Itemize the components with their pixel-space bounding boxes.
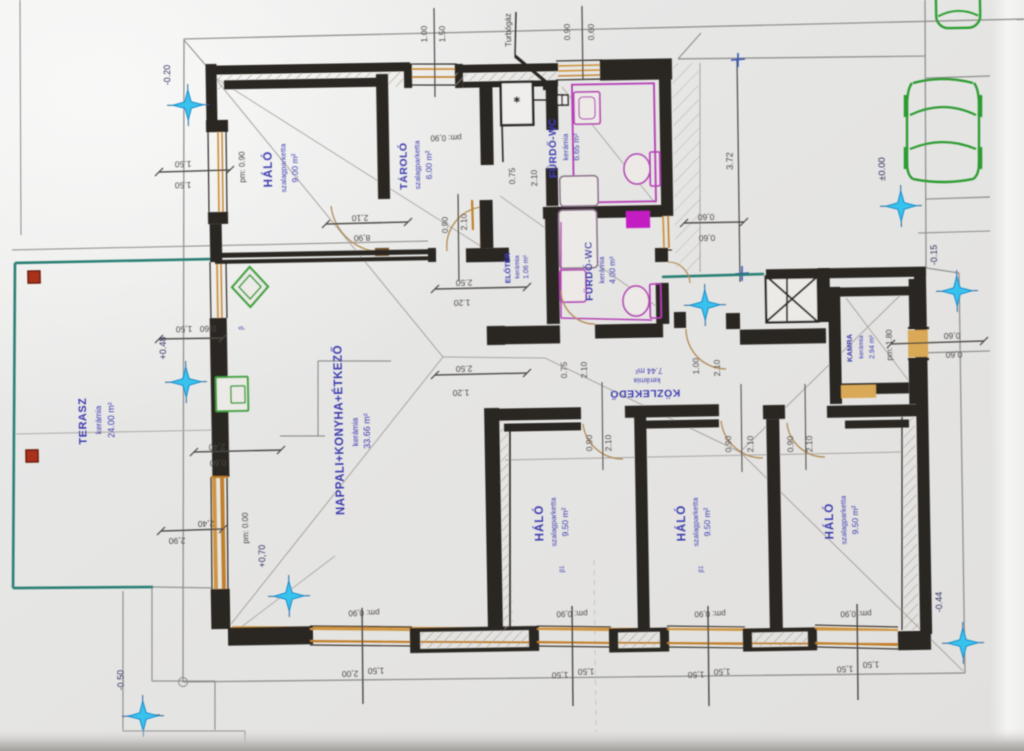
north wall inner face (HALO) bbox=[224, 78, 381, 90]
svg-text:2.10: 2.10 bbox=[745, 435, 755, 452]
pantry inner north face bbox=[834, 286, 912, 296]
ridge line west apex bbox=[443, 355, 545, 360]
west wall block below window W3a bbox=[208, 212, 228, 224]
svg-text:2,10: 2,10 bbox=[351, 213, 368, 223]
site boundary south line bbox=[183, 668, 965, 686]
hip diagonal NW corner to west apex bbox=[214, 73, 443, 361]
parking bay tick 4 bbox=[920, 351, 990, 353]
porch stair block bbox=[766, 276, 819, 323]
svg-text:szalagparketta: szalagparketta bbox=[839, 495, 849, 545]
pantry south inner face bbox=[836, 382, 909, 394]
hip diagonal east apex to NE corner bbox=[737, 270, 929, 452]
site boundary top line bbox=[184, 19, 1024, 39]
dim line tarolo door vertical bbox=[457, 194, 459, 281]
north wall over TAROLO outer bbox=[455, 63, 558, 73]
entry door swing arc bbox=[686, 328, 726, 369]
bed3 north wall (pantry south outer) bbox=[827, 404, 924, 418]
north wall over bathroom1 bbox=[600, 58, 672, 80]
SW site step line B bbox=[152, 680, 215, 682]
pantry door orange in south wall bbox=[841, 385, 876, 399]
svg-text:1,50: 1,50 bbox=[551, 670, 568, 680]
svg-text:β1: β1 bbox=[699, 565, 705, 573]
bed2 north wall inner face bbox=[636, 419, 719, 428]
svg-text:-0.15: -0.15 bbox=[929, 245, 939, 266]
svg-text:pm: 0,90: pm: 0,90 bbox=[430, 133, 462, 143]
survey circle at boundary bbox=[178, 677, 187, 686]
dim line 1.20/2.50 upper bbox=[435, 287, 527, 289]
survey star west bbox=[165, 381, 207, 384]
svg-text:2,90: 2,90 bbox=[168, 536, 185, 546]
dim line 1.50/0.60 terrace bbox=[159, 338, 223, 339]
bathroom2 west wall bbox=[545, 218, 560, 324]
window W5 orange lines bbox=[537, 628, 611, 632]
svg-text:9.00 m²: 9.00 m² bbox=[290, 153, 301, 182]
svg-text:FÜRDŐ-WC: FÜRDŐ-WC bbox=[581, 241, 595, 301]
svg-text:szalagparketta: szalagparketta bbox=[691, 497, 701, 547]
svg-text:1,50: 1,50 bbox=[687, 670, 704, 680]
dim line 2.40/0.60 terrace door bbox=[194, 450, 281, 452]
window W3a orange bbox=[218, 132, 220, 212]
svg-text:7.44 m²: 7.44 m² bbox=[635, 366, 663, 375]
SW corner block bbox=[211, 589, 231, 629]
green diamond symbol inner bbox=[239, 275, 261, 299]
corridor north wall west part bbox=[487, 325, 560, 344]
T wall lower part bbox=[480, 200, 494, 248]
svg-text:TÁROLÓ: TÁROLÓ bbox=[397, 142, 411, 190]
window W7 thin lines bbox=[815, 624, 898, 629]
window W1 north jamb left bbox=[404, 64, 412, 88]
svg-text:1,50: 1,50 bbox=[713, 667, 730, 677]
pantry exterior door orange bbox=[908, 330, 928, 357]
SW site step line D bbox=[121, 591, 126, 731]
south wall west segment bbox=[228, 626, 313, 645]
terrace teal outline top bbox=[15, 259, 213, 263]
bathroom window W9 orange bbox=[662, 216, 665, 248]
svg-text:szalagparketta: szalagparketta bbox=[549, 497, 559, 547]
south wall pier 2 bbox=[611, 630, 667, 651]
bathroom2 door swing arc bbox=[561, 289, 595, 324]
SW site step line C bbox=[214, 681, 216, 730]
corridor west wall piece (L) bbox=[487, 326, 505, 345]
bathroom window W9 lines bbox=[660, 213, 672, 215]
bed1 north wall bbox=[486, 407, 581, 421]
svg-text:kerámia: kerámia bbox=[94, 405, 104, 434]
dim line 2.90/2.40 terrace low bbox=[161, 529, 223, 531]
survey star NE bbox=[936, 290, 978, 293]
bathroom2 washbasin bbox=[560, 270, 587, 302]
bed3 door arc bbox=[787, 422, 825, 457]
star crosshair line bottom left bbox=[127, 714, 160, 717]
sloped ridge to east apex bbox=[545, 355, 740, 456]
bathroom2 east wall lower bbox=[656, 283, 670, 324]
scanner bottom shadow band bbox=[0, 728, 1024, 751]
pier3 end caps bbox=[745, 630, 752, 649]
dim vertical nappali window bottom bbox=[361, 608, 363, 704]
svg-text:24.00 m²: 24.00 m² bbox=[106, 402, 117, 438]
svg-text:2.10: 2.10 bbox=[804, 435, 814, 452]
svg-text:pm: 0,90: pm: 0,90 bbox=[556, 609, 588, 619]
window W4 orange lines bbox=[310, 627, 412, 632]
pantry west wall bbox=[828, 287, 842, 404]
svg-text:1.00: 1.00 bbox=[419, 25, 429, 42]
svg-text:0.75: 0.75 bbox=[559, 361, 569, 378]
svg-text:0,60: 0,60 bbox=[209, 458, 226, 468]
east wall hatch band bbox=[900, 417, 919, 630]
wall between rooms and nappali bbox=[215, 249, 436, 258]
terrace bottom gray continuation bbox=[153, 586, 213, 589]
entry wall foot below front door bbox=[674, 312, 686, 328]
svg-text:HÁLÓ: HÁLÓ bbox=[262, 151, 276, 188]
bathroom2 east wall upper bbox=[655, 248, 668, 262]
hip diagonal east apex to SE boundary corner bbox=[740, 448, 963, 675]
svg-text:-0.20: -0.20 bbox=[162, 65, 172, 86]
svg-text:HÁLÓ: HÁLÓ bbox=[823, 503, 837, 540]
svg-text:ELŐTÉR: ELŐTÉR bbox=[503, 252, 513, 283]
bathroom1 vanity bbox=[574, 92, 601, 124]
flue meter glyph bbox=[556, 95, 562, 105]
window W6 thin lines bbox=[667, 625, 745, 629]
dim line 0.60/0.60 bath window bbox=[684, 222, 744, 223]
corridor NE lower step wall bbox=[740, 328, 826, 344]
svg-text:2.50: 2.50 bbox=[455, 278, 472, 288]
svg-text:kerámia: kerámia bbox=[858, 335, 865, 359]
pantry door jambs bbox=[908, 326, 929, 329]
bed2/bed3 wall stem bbox=[766, 419, 783, 630]
bathroom1 magenta liner bbox=[572, 83, 656, 202]
dim line 1.50/1.50 west window bbox=[159, 170, 230, 172]
red post terrace top bbox=[28, 271, 40, 283]
red post terrace bottom bbox=[26, 450, 38, 462]
top wall of entry recess / pantry bbox=[766, 267, 926, 280]
svg-text:szalagparketta: szalagparketta bbox=[413, 140, 423, 190]
SW site step line F bbox=[244, 731, 247, 748]
west wall segment to nappali corner bbox=[210, 224, 223, 262]
svg-text:1.50: 1.50 bbox=[437, 25, 447, 42]
north wall outer face (HALO+TAROLO) bbox=[206, 62, 410, 75]
svg-text:2.10: 2.10 bbox=[459, 213, 469, 230]
west wall mid segment bbox=[210, 318, 230, 477]
driveway corner jog bbox=[678, 33, 702, 59]
window W6 orange lines bbox=[667, 628, 745, 632]
svg-text:33.66 m²: 33.66 m² bbox=[362, 413, 373, 449]
bathroom1 bathtub bbox=[560, 176, 599, 207]
svg-text:HÁLÓ: HÁLÓ bbox=[533, 505, 547, 542]
window W7 orange lines bbox=[815, 627, 898, 632]
svg-text:kerámia: kerámia bbox=[514, 255, 521, 279]
svg-text:KÖZLEKEDŐ: KÖZLEKEDŐ bbox=[610, 386, 681, 400]
svg-text:0,60: 0,60 bbox=[697, 212, 714, 222]
bathroom1 south wall bbox=[543, 205, 663, 219]
corridor NE wall segment bbox=[726, 313, 740, 329]
svg-text:-0.44: -0.44 bbox=[934, 592, 944, 613]
bed3 north wall inner face bbox=[845, 419, 909, 428]
bathroom2 magenta blob (cistern) bbox=[626, 211, 650, 228]
site boundary west line bbox=[172, 39, 195, 682]
svg-text:1,50: 1,50 bbox=[367, 666, 384, 676]
pantry east wall inner bbox=[909, 279, 918, 327]
svg-text:β: β bbox=[238, 326, 245, 330]
window W2 orange lines bbox=[558, 64, 601, 67]
svg-text:0.60: 0.60 bbox=[586, 23, 596, 40]
bed2 door arc bbox=[721, 420, 763, 459]
terrace teal outline left bbox=[7, 263, 20, 588]
HALO door threshold bbox=[375, 248, 389, 256]
tarolo door jamb block bbox=[428, 248, 436, 262]
kitchen counter lower shelf bbox=[280, 435, 325, 437]
east wall inner thin line bbox=[898, 417, 905, 630]
svg-text:β1: β1 bbox=[560, 565, 566, 573]
diagonal in pantry bbox=[846, 297, 908, 381]
parking bay tick 3 bbox=[918, 231, 990, 233]
bathroom2 bathtub bbox=[559, 210, 598, 269]
svg-text:+0.48: +0.48 bbox=[158, 337, 168, 360]
svg-text:1.50: 1.50 bbox=[174, 159, 191, 169]
svg-text:0,60: 0,60 bbox=[943, 331, 960, 341]
window W1 thin black lines bbox=[410, 63, 457, 65]
front door swing arc bbox=[668, 262, 690, 284]
svg-text:2.10: 2.10 bbox=[529, 169, 539, 186]
door2 dim line vertical bbox=[740, 384, 742, 472]
stair recess east wall bbox=[817, 268, 830, 322]
svg-text:+0,70: +0,70 bbox=[257, 545, 267, 568]
kitchen counter horizontal bbox=[318, 360, 391, 363]
flue box bbox=[501, 82, 534, 126]
nappali/bed1 wall black bbox=[484, 408, 503, 629]
left margin short vertical line bbox=[17, 0, 24, 235]
T wall door gap leaf bbox=[471, 200, 474, 230]
crease diagonal through HALO room bbox=[214, 72, 490, 257]
NW boundary-to-house jog diagonal bbox=[184, 39, 214, 75]
HALO door swing arc bbox=[331, 205, 384, 253]
svg-text:2.94 m²: 2.94 m² bbox=[869, 334, 876, 359]
svg-text:2.10: 2.10 bbox=[603, 434, 613, 451]
T wall foot bbox=[466, 248, 509, 263]
stair diagonals bbox=[766, 275, 818, 323]
second parallel diagonal SW corner bbox=[235, 556, 337, 631]
east wall inner below door bbox=[909, 360, 918, 404]
kitchen counter vertical bbox=[317, 361, 320, 436]
svg-text:0.90: 0.90 bbox=[584, 434, 594, 451]
svg-text:9.50 m²: 9.50 m² bbox=[702, 507, 713, 536]
dim line 3.72 vertical bbox=[736, 59, 741, 282]
window W1 orange lines bbox=[412, 68, 455, 70]
SW site step line E bbox=[123, 729, 245, 733]
svg-text:1.20: 1.20 bbox=[453, 298, 470, 308]
svg-text:4.00 m²: 4.00 m² bbox=[608, 256, 617, 284]
flue meter line bbox=[533, 99, 556, 102]
svg-text:-0.50: -0.50 bbox=[116, 670, 126, 691]
blue cross at walkway bbox=[735, 272, 749, 275]
green door marker outer rect bbox=[216, 377, 249, 412]
survey star NW bbox=[167, 104, 209, 107]
svg-text:1,50: 1,50 bbox=[175, 324, 192, 334]
window W4 thin lines bbox=[310, 624, 412, 629]
svg-text:✱: ✱ bbox=[513, 95, 521, 105]
blue cross top of 3.72 line bbox=[731, 59, 745, 60]
svg-text:kerámia: kerámia bbox=[597, 256, 606, 284]
crease diagonal through bathrooms bbox=[500, 193, 656, 308]
flue box left line continuation bbox=[501, 125, 504, 162]
hatch band north wall bbox=[206, 62, 410, 90]
property line north-east vertical bbox=[921, 0, 929, 268]
ridge line across bedrooms bbox=[505, 452, 903, 460]
corridor north wall east of bath door bbox=[595, 323, 663, 338]
svg-text:pm: 0,90: pm: 0,90 bbox=[840, 609, 872, 619]
svg-text:2.10: 2.10 bbox=[712, 359, 722, 376]
svg-text:1.50: 1.50 bbox=[174, 180, 191, 190]
crease diagonal bathroom 1 bbox=[562, 85, 655, 204]
bed2 north wall bbox=[625, 404, 719, 418]
svg-text:2.50: 2.50 bbox=[455, 364, 472, 374]
svg-text:Turbógáz: Turbógáz bbox=[504, 13, 514, 47]
dim line window W1 top vertical bbox=[433, 8, 435, 97]
second car partial top edge bbox=[936, 0, 981, 28]
window W5 thin lines bbox=[537, 625, 611, 629]
entry walkway teal line bbox=[662, 274, 764, 277]
svg-text:6.00 m²: 6.00 m² bbox=[424, 150, 435, 179]
bed1 north wall inner face bbox=[504, 422, 581, 431]
svg-text:0,60: 0,60 bbox=[199, 324, 216, 334]
bathroom1 west wall upper bbox=[546, 82, 559, 130]
dim line 0.60/0.60 pantry door bbox=[891, 341, 984, 344]
svg-text:1,50: 1,50 bbox=[836, 664, 853, 674]
window W3b thin lines bbox=[209, 262, 212, 318]
green diamond symbol outer bbox=[232, 267, 269, 308]
svg-text:2,40: 2,40 bbox=[208, 442, 225, 452]
svg-text:9.50 m²: 9.50 m² bbox=[560, 507, 571, 536]
svg-text:0,60: 0,60 bbox=[698, 233, 715, 243]
svg-text:pm: 0.90: pm: 0.90 bbox=[238, 151, 248, 183]
bathroom2 toilet tank bbox=[650, 284, 662, 318]
svg-text:1,50: 1,50 bbox=[862, 660, 879, 670]
dim line window W2 top vertical bbox=[582, 6, 584, 80]
window W3a thin lines bbox=[208, 132, 210, 212]
svg-text:HÁLÓ: HÁLÓ bbox=[675, 505, 689, 542]
svg-text:0.90: 0.90 bbox=[440, 216, 450, 233]
east wall outer continuous bbox=[914, 268, 932, 634]
svg-text:kerámia: kerámia bbox=[351, 417, 361, 446]
dim vertical bed2 window bottom bbox=[707, 606, 709, 706]
svg-text:0.90: 0.90 bbox=[785, 435, 795, 452]
nappali/bed1 inner line bbox=[507, 430, 514, 629]
site boundary east line bbox=[958, 273, 966, 673]
parking bay tick 1 bbox=[926, 76, 990, 78]
south wall pier 3 bbox=[745, 629, 815, 649]
pier2 end caps bbox=[611, 630, 618, 650]
svg-text:0.75: 0.75 bbox=[507, 167, 517, 184]
HALO east wall bbox=[376, 74, 390, 199]
survey star SW bottom bbox=[122, 715, 164, 718]
bathroom1 west wall lower bbox=[546, 168, 559, 206]
svg-text:0,60: 0,60 bbox=[945, 350, 962, 360]
turbogaz leader line bbox=[514, 12, 516, 56]
south wall hatch bbox=[412, 628, 537, 651]
svg-text:0.90: 0.90 bbox=[562, 23, 572, 40]
svg-text:0.90: 0.90 bbox=[723, 435, 733, 452]
svg-text:1.00: 1.00 bbox=[691, 357, 701, 374]
dim vertical bed3 window bottom bbox=[856, 604, 858, 700]
svg-text:szalagparketta: szalagparketta bbox=[279, 143, 289, 193]
svg-text:2.10: 2.10 bbox=[579, 361, 589, 378]
svg-text:1.20: 1.20 bbox=[452, 388, 469, 398]
eaves strip edge line bbox=[696, 63, 703, 272]
terrace door top cap bbox=[211, 476, 228, 479]
dim line halo door bbox=[326, 222, 408, 224]
svg-text:KAMRA: KAMRA bbox=[845, 333, 854, 362]
svg-text:TERASZ: TERASZ bbox=[77, 397, 90, 444]
svg-text:kerámia: kerámia bbox=[561, 133, 570, 161]
svg-text:pm: 0,90: pm: 0,90 bbox=[348, 608, 380, 618]
svg-text:kerámia: kerámia bbox=[633, 376, 661, 385]
bathroom2 toilet bowl bbox=[623, 286, 650, 316]
survey star SE bbox=[942, 642, 984, 645]
tarolo door swing arc bbox=[446, 207, 482, 251]
nappali/bed1 hatch band bbox=[499, 420, 513, 629]
SW site step line A bbox=[150, 588, 153, 681]
boundary jog NE bbox=[926, 267, 959, 273]
svg-text:6.65 m²: 6.65 m² bbox=[572, 133, 581, 161]
eaves hatch strip east of bathroom bbox=[672, 63, 702, 272]
north wall over TAROLO inner face bbox=[463, 80, 558, 88]
hip diagonal SW corner to west apex bbox=[226, 357, 447, 624]
terrace teal outline bottom bbox=[13, 586, 153, 590]
parked car green outline bbox=[906, 79, 980, 182]
bed1 door arc bbox=[583, 423, 623, 459]
svg-text:3.72: 3.72 bbox=[725, 152, 735, 170]
window W2 thin lines bbox=[556, 60, 602, 61]
bathroom1 east wall bbox=[659, 61, 674, 216]
svg-text:pm: 0,90: pm: 0,90 bbox=[694, 609, 726, 619]
svg-text:1,50: 1,50 bbox=[577, 667, 594, 677]
window W1 jamb right / wall resume bbox=[455, 64, 463, 88]
door1 dim line vertical bbox=[601, 382, 603, 470]
north extension line above terrace bbox=[12, 241, 428, 250]
svg-text:2,40: 2,40 bbox=[197, 519, 214, 529]
south wall pier 1 (nappali/bed1) bbox=[412, 628, 537, 651]
window W3b orange bbox=[216, 262, 219, 318]
survey star nappali bbox=[268, 595, 310, 598]
svg-text:pm: 0.00: pm: 0.00 bbox=[241, 512, 251, 544]
west wall corner inner lip bbox=[206, 120, 228, 132]
tarolo door leaf orange bbox=[480, 207, 481, 251]
svg-text:1.06 m²: 1.06 m² bbox=[523, 254, 530, 279]
flue connection diagonal bbox=[515, 55, 546, 82]
centre dashed line bottom bbox=[593, 560, 597, 732]
flue outlet square bbox=[543, 81, 551, 90]
bed2/bed3 wall cap bbox=[763, 405, 785, 419]
svg-text:9.50 m²: 9.50 m² bbox=[850, 505, 861, 534]
parking bay tick 2 bbox=[926, 197, 990, 199]
svg-text:8,90: 8,90 bbox=[353, 233, 370, 243]
svg-text:pm: 1.80: pm: 1.80 bbox=[885, 329, 895, 361]
svg-text:2,00: 2,00 bbox=[341, 669, 358, 679]
driveway edge line bbox=[678, 55, 925, 61]
bed1/bed2 wall stem bbox=[634, 417, 650, 630]
terrace door orange band bbox=[212, 477, 218, 589]
svg-text:FÜRDŐ-WC: FÜRDŐ-WC bbox=[546, 118, 560, 178]
south wall continuous orange line lower bbox=[232, 629, 898, 655]
south wall continuous orange line upper bbox=[232, 615, 898, 641]
hatch band north wall east part bbox=[455, 63, 558, 88]
SE corner block bbox=[898, 631, 931, 651]
dim line 1.20/2.50 lower bbox=[435, 373, 527, 375]
pier1 end caps bbox=[412, 629, 420, 650]
terrace door thin lines bbox=[210, 477, 213, 589]
T wall vertical (tarolo east) bbox=[479, 85, 493, 165]
dim vertical bed1 window bottom bbox=[571, 606, 574, 706]
survey star courtyard bbox=[684, 304, 726, 307]
green door marker inner square bbox=[231, 386, 245, 403]
